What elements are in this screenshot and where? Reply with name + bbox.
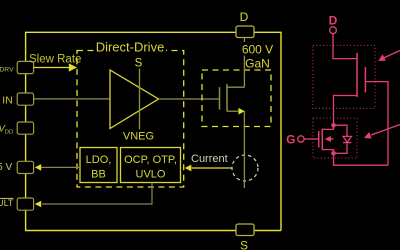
wire: IN signal to amp [34, 98, 110, 100]
svg-text:G: G [286, 133, 295, 147]
block OCP, OTP, UVLO [121, 148, 181, 183]
svg-text:BB: BB [91, 169, 106, 181]
wire: top right segment to right rail [254, 32, 281, 230]
svg-text:Direct-Drive: Direct-Drive [96, 40, 165, 55]
dotted box lower FET [313, 118, 357, 158]
transistor depletion GaN (upper) [356, 53, 358, 97]
svg-text:S: S [135, 58, 143, 70]
annotation arrow lower [371, 125, 400, 136]
transistor GaN FET [219, 87, 221, 109]
node dot source [331, 151, 336, 156]
annotation arrow upper [384, 51, 400, 59]
wire: G to MOSFET gate [304, 138, 319, 140]
pin box FAULT [17, 198, 33, 210]
svg-text:Slew Rate: Slew Rate [29, 54, 81, 66]
wire: drain rail from D pin [243, 38, 245, 88]
pin box -5V [17, 161, 33, 173]
block LDO, BB [80, 148, 117, 183]
svg-text:Current: Current [191, 153, 228, 165]
wire: OCP to FAULT pin [42, 183, 152, 205]
svg-text:D: D [329, 14, 338, 28]
svg-text:RDRV: RDRV [0, 67, 14, 74]
wire: current sense line [192, 167, 233, 169]
svg-text:–5 V: –5 V [0, 162, 13, 173]
terminal D circle [330, 27, 337, 34]
arrowhead slew rate [69, 63, 77, 71]
label 600 V (over drain rail) [240, 42, 274, 56]
wire: LDO to -5V pin [40, 166, 80, 168]
wire: slew rate arrow line [34, 67, 70, 69]
wire: amp output to GaN gate [159, 98, 220, 100]
dashed box GaN FET [202, 70, 271, 127]
arrowhead on GaN source [238, 108, 244, 115]
pin box RDRV [17, 61, 33, 73]
svg-text:IN: IN [2, 95, 13, 107]
dashed box Direct-Drive [77, 51, 184, 188]
pin box VDD [17, 122, 33, 134]
wire: source rail through current source [243, 111, 245, 188]
transistor Si MOSFET (lower) [318, 131, 320, 148]
arrowhead current into OCP [185, 165, 192, 172]
svg-text:DD: DD [5, 129, 13, 135]
wire: source to right rail [334, 153, 389, 165]
wire: outer package top [26, 32, 236, 61]
arrowhead into FAULT pin [35, 201, 41, 208]
pin box IN [17, 93, 33, 105]
svg-text:S: S [240, 239, 248, 250]
pin box D (top) [236, 26, 254, 38]
svg-text:D: D [240, 10, 249, 24]
label Direct-Drive (with black band over dash) [94, 45, 166, 54]
wire: left bus segments between pin boxes [25, 74, 27, 93]
svg-text:FAULT: FAULT [0, 198, 14, 208]
wire: bottom right segment [254, 230, 281, 232]
wire: upper source lead [334, 96, 358, 124]
arrowhead MOSFET body [325, 136, 331, 142]
svg-text:OCP, OTP,: OCP, OTP, [124, 154, 177, 166]
pin box S (bottom) [236, 224, 254, 236]
node S line (source sense) [139, 69, 141, 130]
svg-text:UVLO: UVLO [136, 169, 166, 181]
dotted box upper FET [313, 45, 375, 108]
svg-text:GaN: GaN [245, 57, 270, 71]
svg-text:600 V: 600 V [242, 43, 273, 57]
wire: upper gate lead [365, 82, 388, 166]
diode body [334, 125, 348, 136]
terminal G circle [298, 136, 304, 142]
wire: bottom of package [26, 210, 236, 230]
wire: D to depletion FET drain [333, 34, 357, 59]
svg-text:VNEG: VNEG [123, 130, 154, 142]
node dot drain [331, 123, 336, 128]
arrowhead into -5V pin [35, 164, 41, 171]
op-amp driver triangle [110, 70, 159, 129]
svg-text:LDO,: LDO, [86, 154, 112, 166]
current source dashed circle [232, 155, 258, 181]
